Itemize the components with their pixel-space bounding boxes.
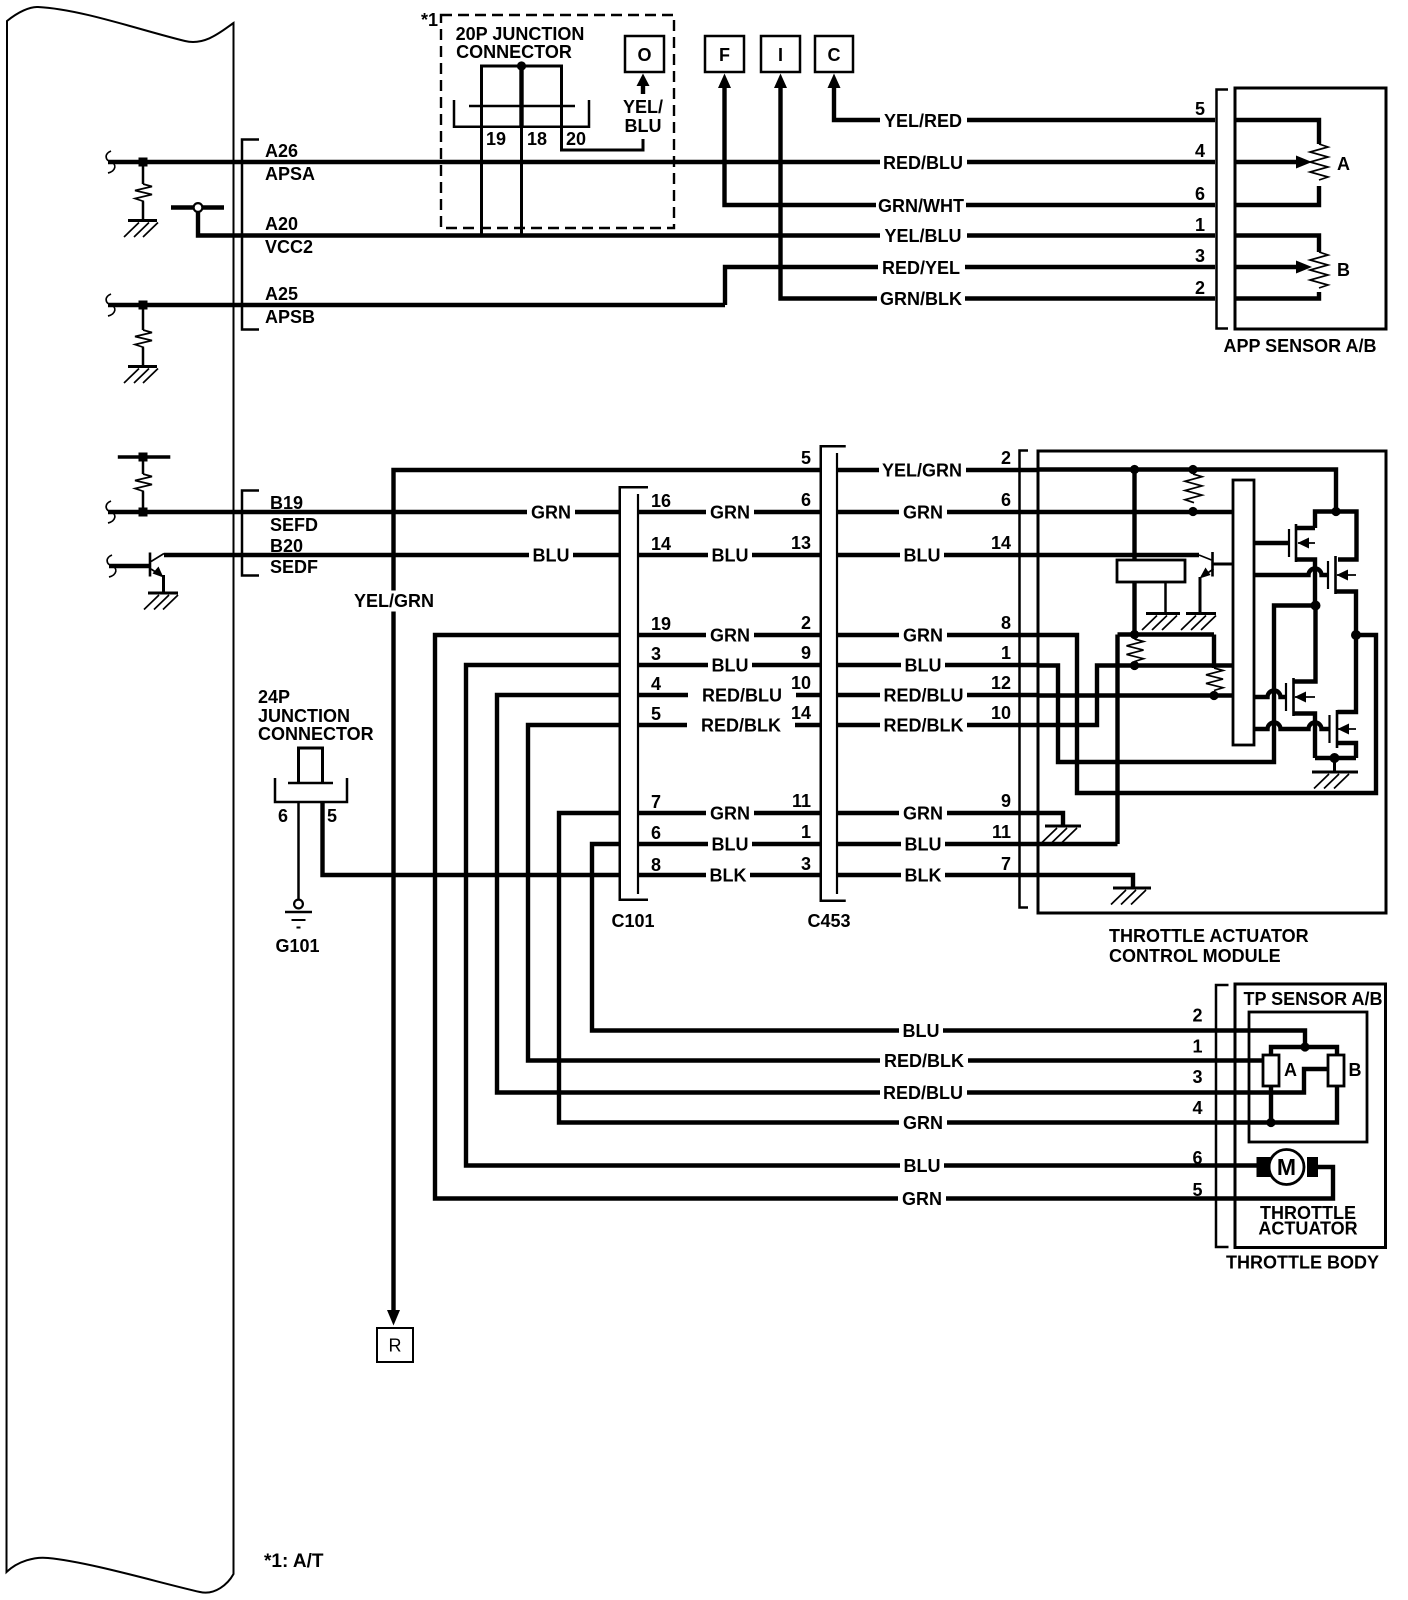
- label RED/BLK (TB1): [880, 1050, 968, 1071]
- wire BLK C453 7 to TACM 7: [838, 873, 1038, 877]
- mosfet M4 gate lead with hops: [1254, 723, 1330, 730]
- svg-text:GRN: GRN: [531, 503, 571, 523]
- THROTTLE BODY box: [1235, 984, 1386, 1248]
- label GRN (TB4): [899, 1112, 947, 1133]
- junction on A25: [139, 301, 148, 310]
- wire B20 SEDF (BLU): [164, 553, 619, 557]
- svg-text:6: 6: [1192, 1148, 1202, 1168]
- label GRN (TB5): [898, 1188, 946, 1209]
- svg-text:BLU: BLU: [625, 116, 662, 136]
- mosfet M4: [1328, 715, 1330, 743]
- svg-text:16: 16: [651, 491, 671, 511]
- resistor to ground from A25: [142, 309, 145, 330]
- svg-text:ACTUATOR: ACTUATOR: [1258, 1219, 1357, 1239]
- wire BLK row to ground (pin 7): [1038, 875, 1133, 888]
- TACM connector bracket: [1020, 451, 1029, 908]
- arrow wire GRN/WHT to F: [725, 87, 1216, 205]
- svg-text:8: 8: [651, 855, 661, 875]
- TP sensor ground wire (pin 4): [1235, 1086, 1337, 1123]
- svg-text:RED/YEL: RED/YEL: [882, 258, 960, 278]
- TP sensor element B: [1328, 1055, 1344, 1086]
- svg-text:7: 7: [1001, 854, 1011, 874]
- label RED/YEL: [878, 256, 965, 278]
- throttle actuator motor: [1269, 1150, 1304, 1185]
- label GRN (9): [899, 802, 947, 823]
- break symbol on B19: [106, 501, 115, 523]
- connector bracket B (ECM pins B19/B20): [242, 491, 259, 576]
- arrow wire GRN/BLK to I: [781, 87, 1216, 299]
- svg-text:SEDF: SEDF: [270, 557, 318, 577]
- svg-text:12: 12: [991, 673, 1011, 693]
- svg-text:8: 8: [1001, 613, 1011, 633]
- svg-text:CONNECTOR: CONNECTOR: [258, 724, 374, 744]
- drain bus M1/M2: [1315, 512, 1357, 560]
- break symbol on A25: [106, 294, 115, 316]
- connector C453: [821, 446, 846, 901]
- svg-text:14: 14: [991, 533, 1011, 553]
- TP sensor inner box: [1249, 1012, 1367, 1142]
- mosfet M1: [1288, 529, 1290, 557]
- connector box F: [705, 36, 744, 72]
- driver IC bar: [1233, 480, 1254, 745]
- svg-text:BLU: BLU: [903, 1021, 940, 1041]
- junction dot R1/GRN row: [1188, 507, 1197, 516]
- ground symbol (A25 pull-down): [128, 365, 157, 368]
- regulator ground stub: [1164, 582, 1167, 613]
- transistor Q2 (ECM output, B20): [109, 564, 150, 568]
- wire RED/BLK net detour (pin 10): [1038, 666, 1233, 726]
- resistor R2 (pull-up RED/BLK): [1127, 639, 1144, 661]
- svg-text:1: 1: [801, 822, 811, 842]
- 20P pin 20 wire (YEL/BLU stub): [562, 128, 644, 150]
- svg-text:A25: A25: [265, 284, 298, 304]
- svg-text:14: 14: [651, 534, 671, 554]
- svg-text:24P: 24P: [258, 687, 290, 707]
- svg-text:BLU: BLU: [904, 546, 941, 566]
- potentiometer A: [1310, 144, 1328, 180]
- mosfet M2 gate lead with hop: [1254, 569, 1328, 576]
- label RED/BLU (TB3): [880, 1082, 967, 1103]
- svg-text:TP SENSOR A/B: TP SENSOR A/B: [1243, 989, 1382, 1009]
- svg-text:GRN: GRN: [710, 503, 750, 523]
- mosfet M1 gate lead: [1254, 541, 1289, 545]
- svg-text:3: 3: [1192, 1067, 1202, 1087]
- pull-up resistor above B19: [118, 455, 171, 459]
- label BLU (14): [900, 544, 944, 565]
- ground symbol (Q1 emitter): [1186, 612, 1216, 615]
- svg-text:7: 7: [651, 792, 661, 812]
- break symbol on A26: [106, 151, 115, 173]
- connector box O: [625, 36, 664, 72]
- motor GRN wire (pin 5): [1235, 1167, 1333, 1199]
- svg-text:10: 10: [991, 703, 1011, 723]
- motor BLU wire (pin 6): [1235, 1163, 1257, 1167]
- svg-text:BLU: BLU: [905, 656, 942, 676]
- junction dot R3/row12: [1209, 691, 1218, 700]
- svg-text:JUNCTION: JUNCTION: [258, 706, 350, 726]
- svg-text:A26: A26: [265, 141, 298, 161]
- riser from pin 11 BLU to supply node: [1115, 635, 1119, 845]
- mosfet M2: [1327, 561, 1329, 589]
- svg-text:B: B: [1349, 1060, 1362, 1080]
- label RED/BLU: [880, 151, 967, 173]
- label RED/BLU (12): [880, 684, 967, 705]
- svg-text:APSB: APSB: [265, 307, 315, 327]
- wire BLU C453 1 to TACM 1: [838, 663, 1038, 667]
- svg-text:YEL/BLU: YEL/BLU: [884, 226, 961, 246]
- svg-text:C101: C101: [611, 911, 654, 931]
- 24P junction connector symbol: [299, 748, 323, 783]
- label YEL/GRN: [351, 591, 437, 612]
- wire BLU row C101 6 to C453 1: [639, 842, 820, 846]
- riser RED/BLU to throttle body 3: [497, 695, 1235, 1093]
- svg-text:CONNECTOR: CONNECTOR: [456, 42, 572, 62]
- svg-text:GRN: GRN: [903, 626, 943, 646]
- svg-text:GRN: GRN: [710, 804, 750, 824]
- svg-text:11: 11: [992, 822, 1011, 842]
- svg-text:4: 4: [1192, 1098, 1202, 1118]
- svg-text:I: I: [778, 45, 783, 65]
- wire BLU row C101 14 to C453 13: [639, 553, 820, 557]
- svg-text:RED/BLK: RED/BLK: [884, 716, 964, 736]
- APP SENSOR A/B box: [1235, 88, 1386, 329]
- svg-text:GRN/BLK: GRN/BLK: [880, 289, 962, 309]
- throttle body connector bracket: [1216, 985, 1229, 1247]
- svg-text:BLU: BLU: [712, 835, 749, 855]
- TACM power rail (pin 2): [1038, 470, 1336, 512]
- label BLU (1): [901, 654, 945, 675]
- wire GRN C453 9 to TACM 9: [838, 811, 1038, 815]
- svg-text:THROTTLE BODY: THROTTLE BODY: [1226, 1253, 1379, 1273]
- APP sensor A circuit wires: [1235, 120, 1319, 205]
- resistor R1: [1185, 474, 1202, 503]
- wiper arrow B (pin 3): [1235, 265, 1297, 269]
- mosfet M3: [1285, 683, 1287, 711]
- junction on A26: [139, 158, 148, 167]
- junction dot motor BLU node: [1311, 601, 1321, 611]
- wire GRN row into driver bar (pin 6): [1038, 510, 1233, 514]
- svg-text:GRN: GRN: [710, 626, 750, 646]
- svg-text:BLU: BLU: [533, 546, 570, 566]
- arrow to O: [641, 85, 645, 94]
- svg-text:19: 19: [486, 129, 506, 149]
- svg-text:B: B: [1337, 260, 1350, 280]
- svg-text:20P JUNCTION: 20P JUNCTION: [456, 24, 585, 44]
- label BLK (7): [901, 864, 945, 885]
- svg-text:13: 13: [791, 533, 811, 553]
- wire A20 VCC2 (YEL/BLU): [198, 211, 1215, 236]
- arrow into R: [387, 1310, 400, 1326]
- svg-text:M: M: [1277, 1154, 1296, 1180]
- svg-text:14: 14: [791, 703, 811, 723]
- label GRN (8): [899, 624, 947, 645]
- wire GRN C453 8 to TACM 8: [838, 633, 1038, 637]
- svg-text:THROTTLE ACTUATOR: THROTTLE ACTUATOR: [1109, 926, 1309, 946]
- TP sensor supply wire (pin 2): [1235, 1031, 1305, 1048]
- svg-text:5: 5: [1192, 1180, 1202, 1200]
- wire GRN C453 6 to TACM 6: [838, 510, 1038, 514]
- svg-text:11: 11: [792, 791, 811, 811]
- riser RED/BLK to throttle body 1: [528, 725, 1235, 1061]
- svg-text:2: 2: [1001, 448, 1011, 468]
- 20P pin 19 wire to VCC2: [480, 128, 483, 234]
- connector box C: [815, 36, 853, 72]
- ground symbol (pin 9): [1045, 825, 1081, 828]
- svg-text:SEFD: SEFD: [270, 515, 318, 535]
- svg-text:6: 6: [278, 806, 288, 826]
- svg-text:BLK: BLK: [905, 866, 942, 886]
- svg-text:B19: B19: [270, 493, 303, 513]
- wire BLU row C101 3 to C453 9: [639, 663, 820, 667]
- 24P pin 5 wire BLK to C101 pin 8: [323, 802, 619, 875]
- ground G101: [294, 900, 303, 909]
- svg-text:6: 6: [1195, 184, 1205, 204]
- svg-text:GRN: GRN: [903, 503, 943, 523]
- svg-text:BLU: BLU: [904, 1156, 941, 1176]
- svg-text:6: 6: [651, 823, 661, 843]
- TP sensor B output (pin 3): [1235, 1069, 1328, 1093]
- label YEL/BLU: [880, 225, 967, 247]
- svg-text:RED/BLU: RED/BLU: [702, 686, 782, 706]
- svg-text:GRN: GRN: [903, 804, 943, 824]
- riser GRN to throttle body 5: [435, 635, 1235, 1199]
- label GRN (B19): [527, 501, 575, 522]
- mosfet M3 gate lead with hop: [1254, 691, 1286, 698]
- svg-text:F: F: [719, 45, 730, 65]
- svg-text:2: 2: [1195, 278, 1205, 298]
- wire YEL/GRN C453 2 to TACM 2: [838, 468, 1038, 472]
- wire GRN row C101 19 to C453 2: [639, 633, 820, 637]
- label RED/BLK (5-14): [687, 714, 795, 735]
- svg-text:5: 5: [327, 806, 337, 826]
- svg-text:*1: *1: [421, 10, 438, 30]
- TP sensor supply bus: [1271, 1047, 1337, 1055]
- svg-text:6: 6: [801, 490, 811, 510]
- wire BLU row (pin 11): [1038, 842, 1118, 846]
- svg-text:BLU: BLU: [712, 656, 749, 676]
- svg-text:3: 3: [651, 644, 661, 664]
- junction dot power/regulator: [1130, 465, 1139, 474]
- svg-text:GRN: GRN: [902, 1189, 942, 1209]
- svg-text:2: 2: [801, 613, 811, 633]
- svg-text:A: A: [1284, 1060, 1297, 1080]
- svg-text:9: 9: [801, 643, 811, 663]
- wiper arrow A (pin 4): [1235, 160, 1297, 164]
- voltage regulator block: [1117, 560, 1185, 582]
- regulator output to sensor supply node: [1132, 582, 1136, 635]
- svg-text:APP SENSOR A/B: APP SENSOR A/B: [1223, 336, 1376, 356]
- connector box R: [377, 1328, 413, 1362]
- svg-text:20: 20: [566, 129, 586, 149]
- svg-text:YEL/GRN: YEL/GRN: [354, 591, 434, 611]
- svg-text:R: R: [389, 1336, 402, 1356]
- label BLU (11): [901, 833, 945, 854]
- wire BLU C453 14 to TACM 14: [838, 553, 1038, 557]
- svg-text:4: 4: [651, 674, 661, 694]
- svg-text:RED/BLU: RED/BLU: [883, 1083, 963, 1103]
- label GRN/WHT: [876, 194, 966, 216]
- riser GRN to throttle body 4: [559, 813, 1235, 1123]
- label BLU (B20): [529, 544, 573, 565]
- label RED/BLK (10): [880, 714, 967, 735]
- svg-text:RED/BLU: RED/BLU: [883, 153, 963, 173]
- wire motor BLU net (pin 1): [1038, 606, 1316, 763]
- junction dot R2/row10: [1130, 661, 1139, 670]
- svg-text:4: 4: [1195, 141, 1205, 161]
- svg-text:19: 19: [651, 614, 671, 634]
- source join to ground: [1315, 756, 1356, 760]
- svg-text:APSA: APSA: [265, 164, 315, 184]
- wire RED/BLU row C101 4 to C453 10: [639, 693, 820, 697]
- svg-text:B20: B20: [270, 536, 303, 556]
- connector box I: [761, 36, 800, 72]
- svg-text:C453: C453: [807, 911, 850, 931]
- 24P pin 6 wire to G101: [297, 802, 300, 899]
- svg-text:5: 5: [651, 704, 661, 724]
- svg-text:RED/BLK: RED/BLK: [701, 716, 781, 736]
- svg-text:C: C: [828, 45, 841, 65]
- label BLU (3-9): [708, 654, 752, 675]
- ECM/PCM harness body outline: [7, 7, 234, 1593]
- supply stub to BLU pin 11 riser: [1118, 632, 1215, 636]
- svg-text:18: 18: [527, 129, 547, 149]
- junction dot power to drain bus: [1331, 507, 1340, 516]
- wire GRN row C101 16 to C453 6: [639, 510, 820, 514]
- wire A25 APSB: [108, 303, 725, 307]
- svg-text:GRN/WHT: GRN/WHT: [878, 196, 964, 216]
- wire RED/BLK row C101 5 to C453 14: [639, 723, 820, 727]
- ground symbol (Q2 emitter): [148, 592, 178, 595]
- svg-text:2: 2: [1192, 1006, 1202, 1026]
- label BLU (TB2): [899, 1020, 943, 1041]
- svg-text:YEL/: YEL/: [623, 97, 663, 117]
- junction dot motor GRN node: [1351, 630, 1361, 640]
- label YEL/RED: [880, 109, 967, 131]
- label YEL/GRN (2): [879, 459, 966, 480]
- wire A26 APSA (RED/BLU): [108, 160, 1215, 164]
- wire BLK row C101 8 to C453 3: [639, 873, 820, 877]
- ground symbol (pin 7): [1113, 887, 1151, 890]
- wire motor GRN net (pin 8): [1038, 635, 1376, 793]
- svg-text:6: 6: [1001, 490, 1011, 510]
- svg-text:YEL/RED: YEL/RED: [884, 111, 962, 131]
- svg-text:CONTROL MODULE: CONTROL MODULE: [1109, 946, 1281, 966]
- label BLU (6-1): [708, 833, 752, 854]
- APP sensor B circuit wires: [1235, 236, 1319, 299]
- arrow wire YEL/RED to C: [834, 87, 1215, 120]
- wire BLU C453 11 to TACM 11: [838, 842, 1038, 846]
- svg-text:BLK: BLK: [710, 866, 747, 886]
- label BLK (8-3): [706, 864, 750, 885]
- junction dot power/R1: [1188, 465, 1197, 474]
- svg-text:YEL/GRN: YEL/GRN: [882, 461, 962, 481]
- junction on B19: [139, 508, 148, 517]
- label GRN/BLK: [877, 288, 965, 310]
- svg-text:BLU: BLU: [712, 546, 749, 566]
- svg-text:A: A: [1337, 154, 1350, 174]
- wire RED/YEL jog from A25: [725, 267, 1215, 305]
- label GRN (16-6): [706, 501, 754, 522]
- wire GRN row to ground (pin 9): [1038, 813, 1063, 826]
- svg-text:RED/BLU: RED/BLU: [884, 686, 964, 706]
- svg-text:VCC2: VCC2: [265, 237, 313, 257]
- svg-text:1: 1: [1195, 215, 1205, 235]
- svg-text:10: 10: [791, 673, 811, 693]
- sensor supply node dot: [1130, 630, 1139, 639]
- label GRN (6): [899, 501, 947, 522]
- THROTTLE ACTUATOR CONTROL MODULE box: [1038, 451, 1386, 913]
- label BLU (14-13): [708, 544, 752, 565]
- connector C101: [620, 487, 648, 900]
- ground symbol (regulator): [1146, 612, 1180, 615]
- potentiometer B: [1310, 252, 1328, 288]
- svg-text:*1: A/T: *1: A/T: [264, 1551, 324, 1572]
- wire B19 SEFD (GRN): [108, 510, 619, 514]
- TP sensor element A: [1263, 1055, 1279, 1086]
- resistor to ground from A26: [142, 166, 145, 184]
- resistor R3 (pull-up RED/BLU): [1212, 635, 1216, 669]
- svg-text:O: O: [637, 45, 651, 65]
- TP sensor A output (pin 1): [1235, 1058, 1263, 1062]
- wire RED/BLU C453 12 to TACM 12: [838, 693, 1038, 697]
- riser BLU to throttle body 2: [592, 844, 1235, 1031]
- wire GRN row C101 7 to C453 11: [639, 811, 820, 815]
- label BLU (TB6): [900, 1155, 944, 1176]
- wire RED/BLU row to driver bar (pin 12): [1038, 693, 1233, 697]
- wire BLU row to Q1 base (pin 14): [1038, 553, 1199, 557]
- svg-text:A20: A20: [265, 214, 298, 234]
- svg-text:9: 9: [1001, 791, 1011, 811]
- svg-text:1: 1: [1192, 1037, 1202, 1057]
- node VCC2 splice: [171, 205, 224, 209]
- svg-text:3: 3: [1195, 246, 1205, 266]
- label GRN (19-2): [706, 624, 754, 645]
- svg-text:GRN: GRN: [903, 1113, 943, 1133]
- svg-text:3: 3: [801, 854, 811, 874]
- connector bracket A (ECM pins A26/A20/A25): [242, 140, 259, 330]
- svg-text:BLU: BLU: [905, 835, 942, 855]
- riser BLU to throttle body 6: [466, 665, 1235, 1166]
- label GRN (7-11): [706, 802, 754, 823]
- label RED/BLU (4-10): [688, 684, 796, 705]
- regulator feed from power rail: [1132, 470, 1136, 561]
- 20P pin 18 wire to VCC2: [520, 128, 523, 234]
- transistor Q1: [1199, 555, 1212, 560]
- ground symbol (A26 pull-down): [128, 219, 157, 222]
- svg-text:1: 1: [1001, 643, 1011, 663]
- APP sensor connector bracket: [1217, 90, 1229, 329]
- wire YEL/GRN riser to R: [394, 470, 820, 1311]
- svg-text:RED/BLK: RED/BLK: [884, 1051, 964, 1071]
- svg-text:5: 5: [801, 448, 811, 468]
- wire RED/BLK C453 10 to TACM 10: [838, 723, 1038, 727]
- ground symbol (H-bridge source): [1312, 771, 1358, 774]
- 20P junction connector symbol: [482, 66, 562, 128]
- svg-text:5: 5: [1195, 99, 1205, 119]
- 20P junction connector dashed enclosure: [441, 15, 674, 228]
- svg-text:G101: G101: [275, 936, 319, 956]
